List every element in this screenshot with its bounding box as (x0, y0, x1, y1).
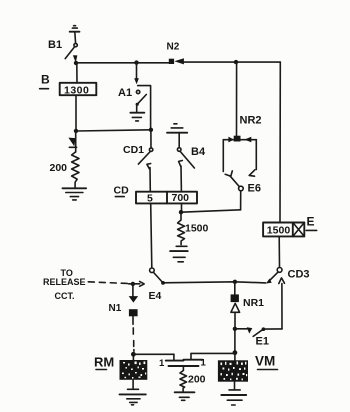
svg-text:NR2: NR2 (240, 115, 262, 127)
battery symbol above B1 (70, 26, 80, 44)
resistor E 1500 (box with X cell) (263, 223, 304, 237)
wire top rail left segment (76, 62, 169, 64)
wire stub with arrow toward E4 (129, 283, 140, 285)
wire right rail down (279, 62, 281, 222)
svg-text:1500: 1500 (185, 223, 209, 235)
label E (306, 215, 317, 231)
svg-text:CD1: CD1 (123, 144, 144, 156)
relay N1 (arrow + square, dashed link) (129, 284, 138, 351)
node: junction CD1 top (149, 128, 153, 132)
contact CD3 (266, 268, 285, 329)
wire CD 700-cell down to node (181, 203, 183, 211)
relay RM coil (solid box) (120, 354, 148, 388)
svg-text:N2: N2 (167, 42, 180, 53)
svg-text:RM: RM (94, 355, 114, 370)
resistor B 1300 (box) (60, 83, 97, 97)
rectifier arrow on left column (68, 138, 76, 148)
svg-text:1: 1 (201, 358, 207, 369)
svg-text:CD3: CD3 (288, 269, 310, 281)
node: N1 junction (131, 282, 135, 286)
resistor 1500 (middle) (178, 214, 185, 245)
svg-text:CD: CD (114, 185, 130, 197)
contact B1 (65, 43, 77, 62)
relay NR2 (armature square with two arrows) (223, 136, 256, 177)
ground below 1500 (170, 246, 188, 261)
wire E box to CD3 (278, 236, 280, 267)
svg-text:A1: A1 (118, 87, 132, 99)
wire to E6 stem (181, 210, 241, 212)
svg-text:200: 200 (50, 162, 68, 174)
wire from top rail into 1300 box (76, 63, 78, 83)
node: VM top (233, 350, 238, 355)
node: junction left rail / 1300 column (74, 129, 78, 133)
ground below RM (120, 389, 146, 405)
ground below 200 (bottom) (175, 392, 195, 400)
wire NR2 stem from top rail (234, 60, 238, 64)
wire E1 junction to VM node (234, 329, 236, 353)
contact E6 (230, 176, 243, 210)
ground below 200 (63, 188, 87, 200)
node: A1 branch junction (134, 60, 138, 64)
node: E1 junction (233, 327, 237, 331)
node: NR1 junction (233, 280, 237, 284)
ground below A1 (130, 113, 144, 121)
label TO RELEASE CCT. (43, 268, 86, 301)
svg-text:NR1: NR1 (243, 297, 264, 309)
wire release rail (163, 282, 266, 283)
svg-text:CCT.: CCT. (55, 291, 75, 301)
svg-text:200: 200 (188, 374, 206, 386)
svg-text:1500: 1500 (267, 224, 291, 236)
contact CD1 (138, 132, 152, 192)
wire top rail right segment (184, 61, 280, 63)
label VM (255, 354, 278, 370)
wire junction to resistor 200 (75, 131, 77, 152)
svg-text:1: 1 (159, 358, 165, 369)
relay CD coil box 5 / 700 (136, 192, 197, 205)
contact E4 (150, 268, 165, 285)
wire contact to VM node (191, 352, 235, 354)
relay N2 (square + arrow) (169, 58, 184, 64)
relay VM coil (solid box) (218, 353, 248, 390)
wire to release cct (dashed) (88, 282, 128, 284)
wire RM node to contact 1 (left) (133, 353, 174, 355)
svg-text:RELEASE: RELEASE (43, 277, 86, 287)
wire A1 L-link (138, 86, 151, 130)
svg-text:VM: VM (255, 354, 275, 369)
label CD (114, 185, 130, 197)
ground below VM (221, 390, 246, 405)
svg-text:700: 700 (172, 192, 190, 204)
contact A1 (136, 90, 147, 111)
svg-text:B: B (41, 73, 50, 87)
node: RM top (131, 352, 136, 357)
wire CD 5-cell down to E4 (151, 203, 152, 267)
wire 1300 box to junction (75, 95, 77, 129)
node: junction of B1 and top rail (74, 61, 78, 65)
svg-text:E6: E6 (248, 183, 261, 195)
svg-text:B1: B1 (48, 39, 62, 51)
resistor 200 (left) (72, 152, 79, 187)
node: junction below 700 (179, 210, 183, 214)
rectifier NR1 (square + triangle) (231, 282, 240, 329)
svg-text:B4: B4 (191, 146, 206, 158)
label RM (94, 355, 114, 370)
svg-text:5: 5 (147, 193, 153, 205)
svg-text:E1: E1 (256, 336, 269, 348)
svg-text:E4: E4 (149, 290, 162, 302)
svg-text:N1: N1 (109, 303, 122, 314)
contact 1 (VM) (183, 354, 202, 360)
contact E1 (235, 327, 282, 336)
svg-text:E: E (307, 215, 315, 229)
wire down to A1 (136, 63, 138, 79)
common armature plate (169, 365, 199, 367)
wire plate to resistor (182, 366, 184, 370)
label B (40, 73, 50, 89)
wire cross rail (76, 130, 151, 131)
contact 1 (RM) (166, 354, 184, 360)
resistor 200 (bottom) (180, 371, 187, 392)
contact B4 (177, 148, 194, 192)
battery symbol above B4 (167, 124, 187, 148)
